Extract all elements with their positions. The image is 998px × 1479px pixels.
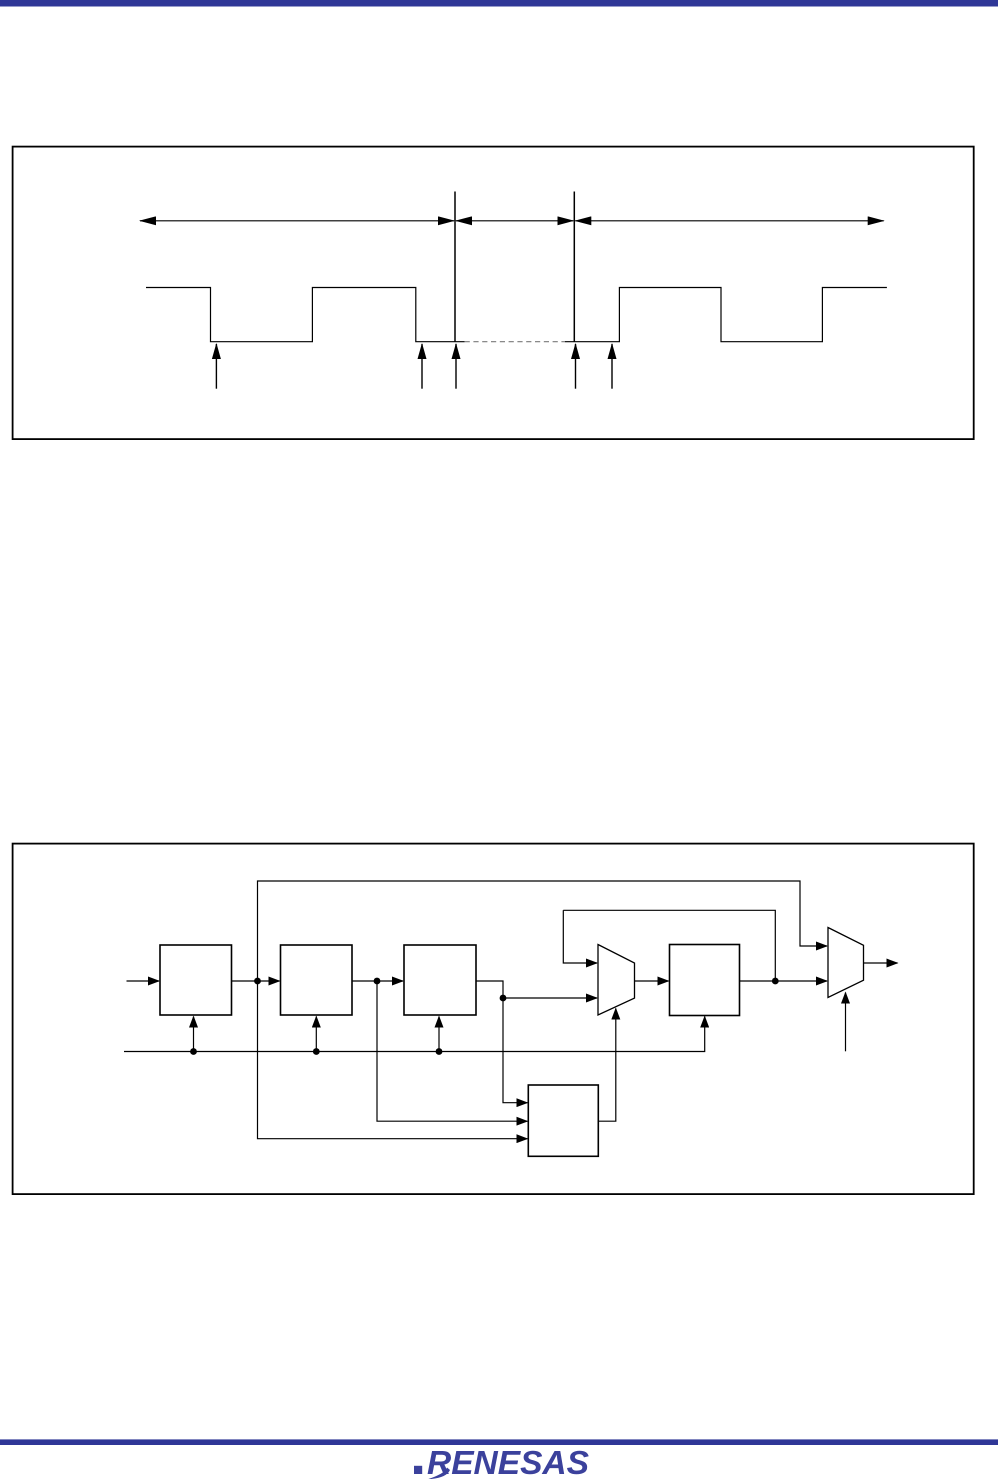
wire to mux M1 lower input [503,997,597,999]
junction node A [254,978,261,985]
junction clock box3 [436,1048,443,1055]
junction node D [772,978,779,985]
wire node B to comparator input 2 [377,981,527,1121]
wire box1 to box2 [232,980,280,982]
edge marker arrow 3 [455,344,457,389]
wire comparator output to mux M1 select [598,1009,616,1122]
junction clock box1 [190,1048,197,1055]
figure 1 frame [13,147,974,440]
wire node A to comparator input 3 [258,981,528,1139]
vertical reference line 2 [573,192,575,343]
edge marker arrow 2 [421,344,423,389]
dimension arrow left span [140,220,454,222]
edge marker arrow 4 [575,344,577,389]
wire node C to comparator input 1 [503,998,527,1103]
wire to mux M1 upper input [563,910,597,963]
clock waveform solid left part [146,288,465,342]
figure 2 frame [13,844,974,1195]
register box 2 [281,945,353,1015]
edge marker arrow 1 [215,344,217,389]
clock waveform solid right part [565,288,887,342]
junction clock box2 [313,1048,320,1055]
junction node C [500,995,507,1002]
Renesas logo [414,1445,589,1479]
mux M2 [828,928,864,998]
clock waveform dashed interruption [465,341,565,343]
register box 3 [404,945,476,1015]
header bar [0,0,998,7]
register box 4 [670,945,740,1016]
wire box4 output to mux M2 lower input [740,980,828,982]
comparator box [528,1085,598,1156]
dimension arrow right span [575,220,883,222]
wire box3 output down [476,981,503,998]
vertical reference line 1 [454,192,456,343]
input wire [127,980,160,982]
register box 1 [160,945,232,1015]
mux M1 [598,945,635,1016]
clock arrow box2 [315,1017,317,1052]
edge marker arrow 5 [611,344,613,389]
feedback wire node D to mux M1 branch [563,910,775,981]
junction node B [374,978,381,985]
clock arrow box1 [193,1017,195,1052]
wire mux M1 output to box4 [635,980,669,982]
clock line [124,1017,705,1052]
wire mux M2 select [845,993,847,1052]
feedback wire node A to mux M2 upper input [258,881,828,981]
svg-text:RENESAS: RENESAS [427,1445,589,1479]
wire box2 to box3 [352,980,403,982]
clock arrow box3 [438,1017,440,1052]
footer rule [0,1439,998,1445]
wire mux M2 output [864,962,898,964]
dimension arrow middle span [456,220,573,222]
